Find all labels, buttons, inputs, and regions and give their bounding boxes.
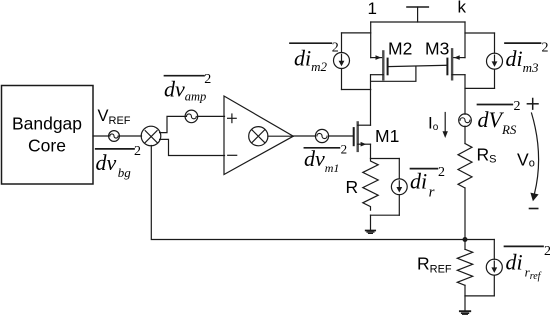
- svg-text:dvbg: dvbg: [96, 150, 132, 180]
- svg-text:M3: M3: [425, 39, 449, 59]
- resistor R: [363, 159, 378, 211]
- svg-text:VREF: VREF: [98, 107, 131, 127]
- wire from dv_amp to op-amp: [198, 115, 225, 117]
- svg-text:dir: dir: [410, 168, 435, 200]
- svg-text:2: 2: [332, 41, 339, 56]
- wire M1 drain up to mirror node: [370, 75, 372, 126]
- svg-text:RS: RS: [477, 145, 497, 166]
- svg-text:M1: M1: [375, 126, 399, 146]
- svg-text:2: 2: [542, 41, 549, 56]
- transistor M2: [371, 57, 384, 59]
- transistor M3: [452, 57, 465, 59]
- wire R bottom: [371, 214, 400, 216]
- wire VREF from box to noise source: [93, 135, 109, 137]
- ground below R: [370, 215, 372, 230]
- wire lower branch to op-amp - input: [160, 139, 225, 155]
- svg-text:1: 1: [368, 0, 377, 18]
- svg-text:2: 2: [204, 72, 211, 87]
- op-amp U1: [224, 96, 293, 175]
- wire to M1 gate: [329, 135, 353, 137]
- overline dv_amp: [165, 75, 205, 77]
- noise current source di_m2: [342, 32, 371, 34]
- svg-text:dim2: dim2: [294, 46, 328, 75]
- svg-text:Bandgap: Bandgap: [12, 113, 82, 133]
- wire shared gate line M2-M3: [388, 65, 448, 66]
- overline dV_RS: [478, 104, 513, 106]
- svg-text:dvamp: dvamp: [164, 77, 206, 104]
- svg-text:Io: Io: [428, 113, 439, 133]
- overline di_m3: [505, 42, 541, 44]
- noise current source di_m3: [465, 32, 495, 34]
- overline di_m2: [290, 42, 331, 44]
- multiplier node X1: [141, 126, 161, 146]
- wire M2 diode connection: [371, 66, 416, 81]
- svg-text:2: 2: [544, 244, 550, 259]
- wire to multiplier: [119, 135, 141, 137]
- plus sign output polarity: [527, 103, 538, 105]
- svg-text:dim3: dim3: [506, 46, 540, 75]
- wire M3 drain down: [464, 75, 466, 115]
- wire dV_RS to Rs: [464, 126, 466, 143]
- svg-text:dVRS: dVRS: [478, 107, 517, 137]
- svg-text:2: 2: [341, 141, 348, 156]
- node output junction: [463, 237, 468, 242]
- wire upper branch to op-amp + input: [160, 116, 186, 132]
- overline dv_m1: [304, 147, 339, 149]
- svg-text:R: R: [346, 177, 359, 197]
- wire M1 source down: [370, 144, 372, 158]
- multiplier inside op-amp: [249, 127, 268, 146]
- noise current source di_rref: [493, 240, 495, 260]
- bandgap core box: [2, 86, 94, 185]
- noise voltage source dv_m1: [315, 129, 328, 142]
- wire feedback from multiplier to bottom rail: [151, 146, 494, 240]
- wire rail to M3 source: [464, 22, 466, 58]
- svg-text:2: 2: [134, 144, 141, 159]
- svg-text:RREF: RREF: [417, 253, 452, 275]
- ground bottom right: [464, 296, 466, 311]
- transistor M1: [353, 128, 355, 145]
- overline dv_bg: [96, 148, 134, 150]
- svg-text:dvm1: dvm1: [304, 146, 339, 175]
- svg-text:Core: Core: [28, 135, 66, 155]
- svg-text:Vo: Vo: [517, 149, 535, 169]
- noise current source di_r: [398, 159, 400, 179]
- noise voltage source dv_bg: [109, 131, 120, 142]
- VDD supply symbol: [407, 6, 428, 8]
- svg-text:2: 2: [514, 99, 521, 114]
- overline di_r: [411, 168, 438, 170]
- svg-text:dirref: dirref: [506, 250, 542, 283]
- svg-text:k: k: [458, 0, 467, 17]
- wire op-amp output: [293, 135, 315, 137]
- wire Rs to output node: [464, 188, 466, 240]
- noise voltage source dv_amp: [185, 110, 198, 123]
- resistor R_REF: [464, 240, 466, 250]
- svg-text:M2: M2: [388, 39, 412, 59]
- supply rail wire: [371, 21, 465, 23]
- minus sign output polarity: [530, 208, 538, 210]
- wire rail to M2 source: [370, 22, 372, 58]
- svg-text:2: 2: [438, 165, 445, 180]
- noise voltage source dV_RS: [459, 114, 472, 127]
- Io arrow: [444, 113, 446, 133]
- Vo curved arrow: [532, 113, 539, 194]
- overline di_rref: [505, 245, 544, 247]
- wire R top to di_r top: [371, 158, 400, 160]
- resistor Rs: [458, 144, 472, 188]
